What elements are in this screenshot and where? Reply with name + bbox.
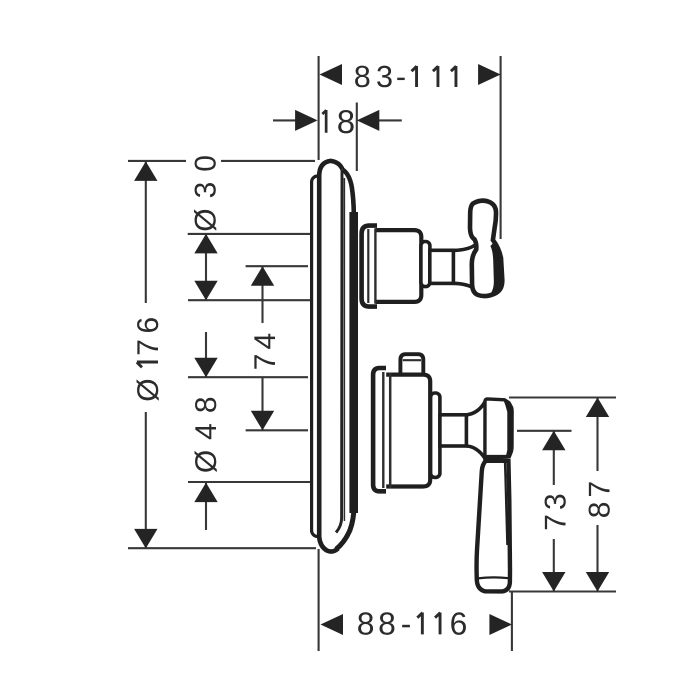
svg-text:Ø48: Ø48 <box>190 386 223 473</box>
svg-text:8: 8 <box>337 103 355 140</box>
svg-text:83-: 83- <box>354 60 406 94</box>
svg-text:Ø30: Ø30 <box>190 145 223 232</box>
svg-text:6: 6 <box>450 605 468 641</box>
svg-text:73: 73 <box>540 489 573 530</box>
svg-text:87: 87 <box>584 477 617 518</box>
svg-text:74: 74 <box>249 329 282 370</box>
svg-text:88-: 88- <box>357 605 412 641</box>
